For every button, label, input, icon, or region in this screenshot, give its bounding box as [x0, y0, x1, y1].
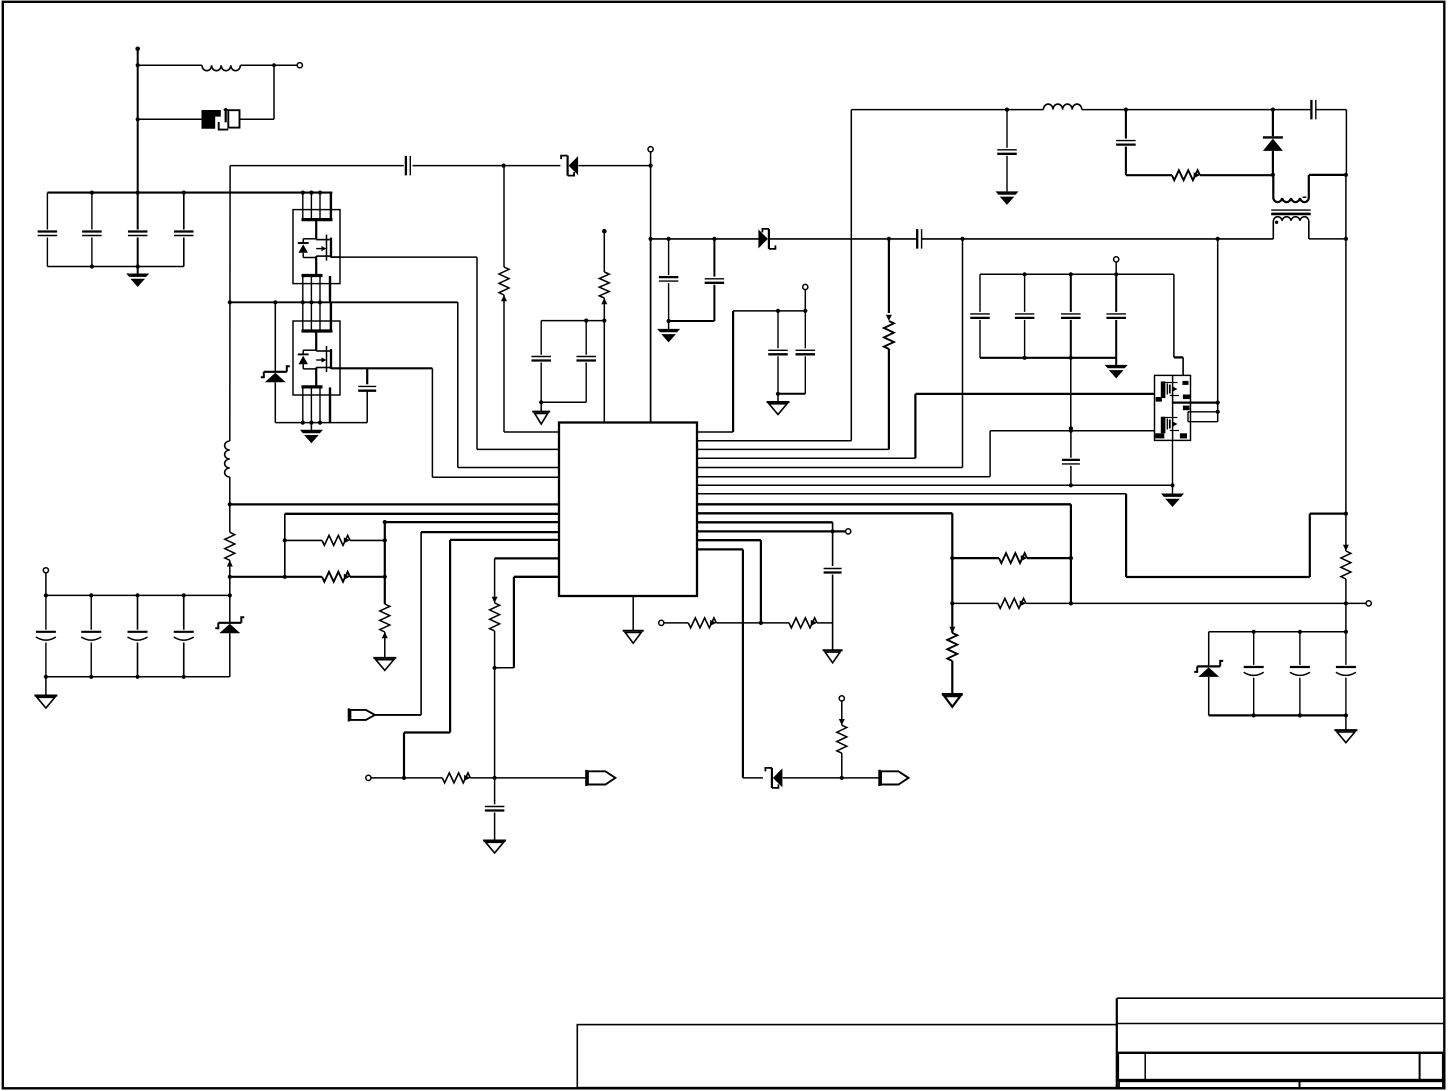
wire row 532 to U1	[421, 531, 559, 533]
wire switch-node bus y=302.3	[230, 301, 458, 303]
junction Q4 pin1/x=1217.7	[1216, 401, 1220, 405]
wire row 449 right	[697, 448, 889, 450]
junction C20 top	[1023, 272, 1027, 276]
wire gate1 vertical	[476, 257, 478, 449]
notes box	[577, 1025, 1117, 1088]
resistor R12	[789, 618, 817, 628]
resistor R13	[837, 725, 847, 753]
wire D7 bottom lead	[1208, 677, 1210, 716]
resistor R4	[225, 532, 235, 560]
junction node B / y=238.9 rail	[649, 237, 653, 241]
wire to R4	[229, 504, 231, 532]
transistor Q2 arrow	[322, 246, 327, 251]
wire row 531 right	[697, 530, 846, 532]
wire Q3 gate net (thick)	[331, 367, 432, 369]
terminal T8	[1366, 601, 1371, 606]
junction bus/D3	[273, 300, 277, 304]
wire C14 C15 bottom bus	[669, 320, 715, 322]
wire x=851.3 vertical	[850, 110, 852, 441]
wire y=603.4 left	[952, 602, 998, 604]
wire Q2 gate net	[331, 256, 477, 258]
resistor R15	[1172, 170, 1200, 180]
ground Q3 source	[300, 430, 323, 433]
Q4 internal pads	[1161, 381, 1166, 398]
IC U1 (controller)	[559, 423, 697, 597]
wire x=450 vertical	[449, 540, 451, 733]
junction C21 bottom	[1069, 356, 1073, 360]
wire secondary to x=1345.9	[1309, 238, 1346, 240]
wire lr bank top bus	[1209, 631, 1346, 633]
junction R1 left	[283, 538, 287, 542]
Q4 right pin 3	[1187, 412, 1189, 422]
junction C21 top	[1069, 272, 1073, 276]
junction y=667.8	[493, 666, 497, 670]
resistor R8	[884, 321, 894, 349]
wire Q3 source bus y=422.6	[275, 422, 367, 424]
transistor Q3 arrow	[322, 357, 327, 362]
junction C16 top	[1005, 108, 1009, 112]
wire primary right to x=1345.9	[1309, 174, 1346, 176]
ground C10	[767, 401, 790, 403]
capacitor C10	[777, 311, 779, 348]
transformer TR1 secondary	[1273, 217, 1308, 239]
resistor R16	[1341, 551, 1351, 579]
junction R2 right	[383, 575, 387, 579]
transistor Q3 package box	[293, 321, 340, 395]
wire x=733.1 vertical	[732, 311, 734, 432]
junction C14 bottom	[667, 319, 671, 323]
connector flag F3	[878, 770, 880, 786]
junction x=1345.9/y=238.9	[1344, 237, 1348, 241]
wire row 540 right	[697, 539, 761, 541]
wire y=732.5	[404, 731, 450, 733]
wire output caps bottom bus	[980, 357, 1116, 359]
wire T7 to R14	[371, 777, 442, 779]
transistor Q3 drain pad	[302, 329, 333, 332]
wire T10 stub	[45, 573, 47, 596]
wire D1 to node B	[578, 165, 650, 167]
transistor Q3 body diode	[302, 350, 304, 354]
junction x=384.8 top	[383, 520, 387, 524]
node B junction	[649, 164, 653, 168]
capacitor C2	[91, 193, 93, 230]
junction L2 / VCC bus	[228, 502, 232, 506]
ground input bank	[126, 274, 149, 277]
wire y=310.9	[733, 310, 805, 312]
wire row 458 right	[697, 457, 915, 459]
wire R9 lead left	[952, 557, 999, 559]
wire x=404 down	[403, 733, 405, 778]
junction Q4 source/row 485	[1170, 483, 1174, 487]
wire x=229.8 upper segment	[229, 166, 231, 441]
wire T5 to R11	[664, 622, 688, 624]
wire VIN vertical stub	[137, 49, 139, 193]
junction R5/C8	[602, 319, 606, 323]
resistor R3	[499, 267, 509, 295]
ground R10	[942, 693, 963, 696]
wire x=1217.7 vertical	[1217, 239, 1219, 422]
wire stub to ground	[310, 423, 312, 430]
resistor R11	[688, 618, 716, 628]
inductor L1	[202, 65, 240, 71]
capacitor C4	[183, 193, 185, 230]
wire x=1346.4 top segment	[1345, 110, 1347, 175]
Q3 top pin 4 (thick)	[330, 302, 332, 331]
wire x=494.6 upper	[494, 558, 496, 603]
wire x=513.9 vertical	[513, 577, 515, 668]
wire R3 top segment	[503, 166, 505, 267]
junction D6/T1 primary	[1271, 173, 1275, 177]
capacitor C19	[979, 274, 981, 312]
wire VCC bus to U1 (row 504)	[230, 503, 559, 505]
transistor Q2 source lead	[315, 256, 317, 275]
wire drain bus y=192.6	[47, 192, 332, 194]
wire y=109.6 mid	[1082, 109, 1274, 111]
diode D7 (zener)	[1197, 665, 1220, 667]
wire row 576.8 to U1	[514, 576, 559, 578]
transformer TR1 primary	[1273, 175, 1308, 202]
wire R16 upper lead	[1345, 514, 1347, 551]
terminal T5	[659, 620, 664, 625]
transistor Q3 MOSFET channel	[303, 349, 316, 351]
wire x=1126.1 vertical	[1125, 494, 1127, 577]
wire row 522 to U1	[385, 521, 559, 523]
connector flag F1	[348, 708, 350, 721]
ground output bank	[1105, 365, 1128, 368]
wire row 513 right	[697, 512, 952, 514]
Q3 top pins	[302, 302, 304, 331]
title block inner row	[1118, 1053, 1443, 1080]
junction x=1070.9/y=485.3	[1069, 483, 1073, 487]
wire lower bank top bus	[46, 594, 230, 596]
transistor Q2 gate pin	[331, 256, 340, 258]
wire x=384.8 vertical	[384, 522, 386, 604]
Q4 right pin 2	[1188, 411, 1218, 413]
title block bottom strip	[1119, 1081, 1443, 1088]
wire R13 upper lead	[841, 701, 843, 725]
transistor Q1 (top-left switch, black package glyph)	[202, 110, 221, 129]
wire C6 bottom	[366, 391, 368, 423]
junction C10 bottom	[776, 392, 780, 396]
capacitor C1	[46, 193, 48, 230]
terminal T1	[297, 63, 302, 68]
terminal T10	[43, 568, 48, 573]
wire to C23	[1070, 428, 1072, 457]
wire R1 lead right	[350, 539, 385, 541]
capacitor C6	[358, 385, 376, 387]
capacitor C15	[713, 239, 715, 277]
wire gate2 vertical	[431, 368, 433, 477]
wire stub to ground	[668, 321, 670, 329]
wire row 504 right	[697, 503, 1071, 505]
resistor R7	[490, 603, 500, 631]
wire x=888.9 upper	[888, 239, 890, 313]
capacitor C23	[1062, 459, 1080, 461]
wire to Q4 package left pin 2	[990, 430, 1154, 432]
wire R2 lead right	[350, 576, 385, 578]
junction C3 top	[136, 191, 140, 195]
wire Q4 top elbow	[1174, 356, 1183, 358]
junction R9 left	[950, 556, 954, 560]
wire C23 to row 485	[1070, 466, 1072, 485]
junction x=1345.9/y=174.9	[1344, 173, 1348, 177]
wire to U1 pin (left row 467)	[458, 467, 559, 469]
junction VIN/Q1	[136, 117, 140, 121]
junction bus/x229.8	[228, 300, 232, 304]
wire bus row 513.8	[285, 513, 559, 515]
wire to C18	[1273, 109, 1312, 111]
wire to T8	[1346, 602, 1366, 604]
wire to C9	[494, 778, 496, 804]
junction R9 right	[1069, 556, 1073, 560]
wire R10 to ground	[951, 661, 953, 694]
wire row 477 right	[697, 476, 990, 478]
terminal T4	[846, 529, 851, 534]
junction bus2 left	[283, 575, 287, 579]
wire R15 to D6 node	[1200, 174, 1273, 176]
Q4 right pin 1	[1173, 401, 1218, 403]
wire output bus to Q4 top	[1173, 274, 1175, 357]
ground lower bank	[34, 695, 57, 697]
junction x=952.3/y=603.4	[950, 601, 954, 605]
wire rail right segment	[922, 238, 1274, 240]
junction C10 top	[776, 309, 780, 313]
transistor Q3 source pad	[302, 385, 323, 388]
wire x=1070.9 lower vertical	[1070, 504, 1072, 603]
transistor Q2 package box	[293, 210, 340, 284]
transistor Q3 source lead	[315, 368, 317, 387]
wire lr bank bottom bus	[1209, 714, 1346, 716]
wire x=1070.8 mid vertical	[1070, 358, 1072, 429]
junction C3 bottom	[136, 264, 140, 268]
transformer TR1 core	[1271, 209, 1311, 211]
wire R6 to ground	[384, 632, 386, 658]
capacitor C25 (polarized)	[90, 595, 92, 629]
wire x=832.6 upper	[832, 522, 834, 566]
wire x=888.9 lower	[888, 349, 890, 450]
junction C2 top	[90, 191, 94, 195]
inductor L3	[1043, 104, 1081, 110]
transistor Q2 drain pad	[302, 218, 333, 221]
junction D6 top	[1271, 108, 1275, 112]
transistor Q3 gate pin	[331, 367, 340, 369]
ground Q4	[1161, 494, 1184, 497]
junction at R3 top	[502, 164, 506, 168]
wire C5 to D1	[413, 165, 561, 167]
Q2 top pins	[302, 193, 304, 220]
wire D3 top	[274, 302, 276, 372]
junction x=1345.9/y=603.4	[1344, 601, 1348, 605]
wire T9 stub	[1115, 262, 1117, 274]
terminal T9	[1114, 257, 1119, 262]
wire U1 top pin x=650 lower seg	[650, 239, 652, 423]
wire L2 to bus	[229, 477, 231, 504]
wire D7 top lead	[1208, 632, 1210, 667]
wire Q1 to node	[240, 118, 274, 120]
capacitor C22	[1115, 274, 1117, 312]
wire to L1	[138, 64, 202, 66]
wire R11 to junction	[716, 622, 761, 624]
capacitor C20	[1024, 274, 1026, 312]
title block outline	[1116, 998, 1118, 1088]
wire x=915.4 vertical	[914, 394, 916, 458]
junction x=1345.9/y=513.6	[1344, 511, 1348, 515]
wire R13 lower lead	[841, 753, 843, 778]
transistor Q3 drain lead	[315, 331, 317, 351]
wire L1 to terminal	[240, 64, 297, 66]
ground C9	[483, 840, 506, 842]
node C terminal dot	[602, 229, 607, 234]
diode D6	[1263, 136, 1283, 138]
junction VIN/L1	[136, 63, 140, 67]
wire D5 to flag F3	[783, 777, 880, 779]
junction R13 bottom	[840, 776, 844, 780]
wire to x=1345.9	[1310, 512, 1346, 514]
wire x=1345.9 long vertical	[1345, 175, 1347, 514]
transistor Q2 body diode	[302, 239, 304, 243]
wire U1 ground pin	[632, 596, 634, 631]
junction C15 top	[712, 237, 716, 241]
inductor L2 (vertical)	[225, 441, 230, 477]
transistor Q4 (dual MOSFET pack) box	[1155, 375, 1191, 440]
junction x=1125.9	[1124, 108, 1128, 112]
junction C22 top	[1114, 272, 1118, 276]
wire x=832.6 lower	[832, 575, 834, 651]
wire node A to C5	[230, 165, 404, 167]
Q2 bottom pin 4 (thick)	[329, 276, 331, 302]
wire output caps top bus	[980, 273, 1174, 275]
junction x=760.9/y=622.9	[759, 621, 763, 625]
wire x=1309.8 vertical	[1309, 514, 1311, 577]
junction C8 top	[584, 319, 588, 323]
wire R4 to bus2	[229, 560, 231, 595]
junction x=1070.9/y=430.7	[1069, 429, 1073, 433]
wire x=494.6 lower	[494, 631, 496, 778]
junction R4 / bus2	[228, 575, 232, 579]
wire R1 lead left	[285, 539, 322, 541]
capacitor C3	[137, 193, 139, 230]
junction at cap bank 2 bus	[228, 593, 232, 597]
wire C6 top	[366, 368, 368, 384]
wire R3 to U1	[503, 295, 505, 432]
junction x=404/y=777.9	[402, 776, 406, 780]
capacitor C28 (polarized)	[1253, 632, 1255, 665]
wire x=284.8 vertical	[284, 514, 286, 577]
wire to U1 pin (left row 432)	[504, 431, 559, 433]
wire Q4 top lead	[1182, 357, 1184, 375]
wire C7 C8 top bus	[541, 320, 604, 322]
wire D3 bottom	[274, 382, 276, 422]
terminal T3	[803, 284, 808, 289]
Q4 source bottom lead	[1172, 440, 1174, 493]
junction C20 bottom	[1023, 356, 1027, 360]
wire D6 anode lead	[1272, 151, 1274, 175]
junction C2 bottom	[90, 264, 94, 268]
wire x=760.9 vertical	[760, 540, 762, 623]
wire y=577 link	[1126, 576, 1310, 578]
ground C16	[996, 191, 1019, 194]
junction rail/x=1217.7	[1216, 237, 1220, 241]
Q4 internal mosfets	[1172, 375, 1174, 440]
wire x=962.5 vertical	[962, 239, 964, 468]
diode D4 (zener)	[768, 229, 770, 249]
capacitor C21	[1070, 274, 1072, 312]
capacitor C29 (polarized)	[1299, 632, 1301, 665]
wire bus2 y=576.8	[230, 576, 322, 578]
wire y=109.6 left	[851, 109, 1043, 111]
wire stub to ground	[540, 402, 542, 411]
wire R12 lead left	[761, 622, 789, 624]
terminal T7	[366, 775, 371, 780]
junction row531/x=832.6	[831, 529, 835, 533]
wire x=742.9 vertical	[742, 549, 744, 778]
wire R12 to x=832.6	[817, 622, 833, 624]
wire R14 to flag F2	[470, 777, 586, 779]
junction x=888.9/y=238.9	[887, 237, 891, 241]
junction L1 out	[272, 63, 276, 67]
wire C17 to R15	[1126, 174, 1172, 176]
transistor Q2 MOSFET channel	[303, 238, 316, 240]
resistor R5	[599, 272, 609, 298]
wire row 540 to U1	[450, 539, 559, 541]
junction C7 bottom	[539, 400, 543, 404]
ground R6	[373, 657, 396, 659]
resistor R14	[442, 773, 470, 783]
wire rail mid segment	[770, 238, 917, 240]
wire row 441 right	[697, 440, 851, 442]
wire x=952.3 vertical	[951, 513, 953, 633]
ground U1	[623, 630, 644, 632]
wire D2 bottom lead	[229, 633, 231, 677]
capacitor C8	[585, 321, 587, 355]
wire U1 top pin x=604	[603, 321, 605, 423]
wire C18 to corner	[1316, 109, 1347, 111]
junction y=603.4	[1069, 601, 1073, 605]
ground C7	[532, 411, 550, 413]
Q2 bottom pins	[302, 276, 304, 302]
wire to U1 pin (left row 449)	[477, 448, 559, 450]
capacitor C30 (polarized)	[1345, 632, 1347, 665]
wire row 432 right	[697, 431, 733, 433]
transistor Q2 source pad	[302, 274, 323, 277]
transformer TR1 secondary phase dot	[1275, 221, 1278, 224]
capacitor C24 (polarized)	[45, 595, 47, 629]
Q2 top pin 4 (thick)	[330, 193, 332, 220]
transformer TR1 primary phase dash	[1303, 196, 1307, 198]
node VIN top terminal dot	[135, 47, 140, 52]
wire to ground	[45, 677, 47, 696]
wire T3 stub	[804, 290, 806, 311]
diode D5 (zener)	[771, 768, 773, 788]
wire C7 C8 bottom bus	[541, 401, 586, 403]
ground lr bank	[1334, 729, 1357, 731]
resistor R2	[322, 572, 350, 582]
capacitor C9	[485, 806, 505, 808]
wire row 467 right	[697, 467, 963, 469]
resistor R17	[998, 598, 1026, 608]
junction C4 top	[182, 191, 186, 195]
capacitor C13 (series)	[916, 229, 918, 249]
junction C14 top	[667, 237, 671, 241]
junction Q4 pin2/x=1217.7	[1216, 410, 1220, 414]
wire stub to ground	[777, 394, 779, 402]
wire cap bank bottom bus	[47, 266, 183, 268]
junction x=1070.9/row430	[1069, 426, 1073, 430]
wire bus down right of Q packages	[457, 302, 459, 467]
wire R16 to caps bus	[1345, 579, 1347, 632]
junction y=777.9	[493, 776, 497, 780]
wire x=990.1 vertical	[989, 431, 991, 477]
